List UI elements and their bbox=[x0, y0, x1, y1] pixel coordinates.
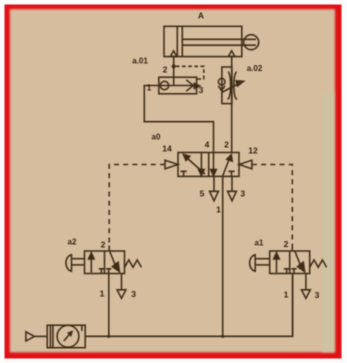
a0 left square down arrow bbox=[200, 153, 202, 171]
a2 middle line bbox=[104, 251, 106, 274]
a0 middle line bbox=[208, 153, 210, 177]
junction dot at a.01 port 2 bbox=[172, 64, 176, 68]
svg-text:A: A bbox=[198, 11, 204, 21]
svg-text:1: 1 bbox=[147, 83, 152, 93]
a1 spring bbox=[310, 260, 327, 267]
a1 left square up arrow bbox=[276, 258, 278, 273]
a0 right square down arrow bbox=[213, 153, 215, 171]
a1 T marks bbox=[284, 269, 289, 274]
a1 mushroom actuator bbox=[250, 255, 256, 271]
svg-text:3: 3 bbox=[199, 85, 204, 95]
valve a0 body bbox=[178, 153, 239, 177]
right side scan tint bbox=[322, 92, 335, 353]
wire cylinder right port through a.02 to a0 port 2 bbox=[231, 57, 233, 153]
a.01 middle line bbox=[159, 85, 197, 87]
junction dot a2 bbox=[107, 335, 110, 338]
svg-text:12: 12 bbox=[248, 146, 258, 156]
valve a2 body bbox=[85, 251, 125, 274]
svg-text:3: 3 bbox=[240, 189, 245, 199]
a2 port 3 stub bbox=[121, 274, 123, 290]
service unit body bbox=[47, 325, 85, 348]
a.02 check seat bbox=[218, 86, 225, 91]
a.01 pilot dashed line bbox=[176, 66, 204, 79]
svg-text:2: 2 bbox=[284, 239, 289, 249]
svg-text:1: 1 bbox=[100, 289, 105, 299]
svg-text:4: 4 bbox=[205, 140, 210, 150]
valve a.02 body bbox=[222, 67, 232, 104]
wire supply triangle to service unit bbox=[34, 335, 47, 337]
a0 right square T bbox=[228, 171, 234, 176]
a0 left square diagonal arrow bbox=[187, 158, 206, 175]
cylinder left port arrow bbox=[170, 51, 176, 57]
a2 port 1 wire bbox=[108, 274, 110, 337]
a.02 adjust arrow bbox=[222, 84, 240, 93]
a0 pilot 14 triangle bbox=[165, 160, 178, 169]
svg-text:a2: a2 bbox=[68, 238, 77, 247]
svg-text:2: 2 bbox=[101, 240, 106, 250]
wire a0 port 1 to supply line bbox=[222, 176, 224, 336]
a0 port 3 exhaust triangle bbox=[228, 191, 237, 201]
cylinder A piston bbox=[176, 26, 178, 56]
a2 spring bbox=[125, 260, 142, 267]
valve a1 body bbox=[270, 251, 310, 274]
valve a.01 body bbox=[159, 77, 197, 94]
service unit gauge needle bbox=[64, 334, 70, 341]
a2 port 3 exhaust triangle bbox=[117, 290, 126, 299]
a0 left square T bbox=[181, 171, 187, 176]
a2 T marks bbox=[99, 269, 104, 274]
a1 middle line bbox=[289, 251, 291, 274]
a.01 chevron bbox=[186, 80, 193, 91]
service unit inner double lines bbox=[49, 325, 51, 348]
supply line bbox=[85, 274, 292, 337]
a2 port 2 stub bbox=[108, 246, 110, 252]
service unit right tick bbox=[81, 325, 83, 331]
a2 left square up arrow bbox=[90, 258, 92, 273]
cylinder A body bbox=[164, 26, 242, 56]
a1 port 3 exhaust triangle bbox=[302, 290, 311, 299]
a0 pilot 14 dashed line bbox=[109, 165, 165, 246]
svg-text:1: 1 bbox=[284, 290, 289, 300]
a1 port 3 stub bbox=[305, 274, 307, 290]
service unit gauge circle bbox=[57, 325, 79, 347]
air supply triangle bbox=[26, 332, 35, 341]
junction dot a0 bbox=[221, 335, 224, 338]
svg-text:14: 14 bbox=[162, 144, 172, 154]
a0 right square diagonal arrow bbox=[223, 160, 229, 177]
a.02 throttle arcs bbox=[228, 72, 231, 100]
svg-text:2: 2 bbox=[224, 140, 229, 150]
svg-text:a.01: a.01 bbox=[132, 57, 148, 66]
svg-text:a1: a1 bbox=[255, 239, 264, 248]
a2 mushroom actuator bbox=[66, 255, 72, 271]
wire cylinder left port to a.01 port 2 bbox=[173, 57, 175, 86]
a0 port 5 stub bbox=[213, 176, 215, 191]
svg-text:3: 3 bbox=[315, 290, 320, 300]
a1 port 1 wire bbox=[292, 274, 294, 337]
svg-text:3: 3 bbox=[131, 289, 136, 299]
svg-text:2: 2 bbox=[163, 65, 168, 75]
a0 pilot 12 dashed line bbox=[252, 165, 292, 246]
a0 pilot 12 triangle bbox=[239, 160, 252, 169]
a.01 check ball bbox=[160, 81, 168, 89]
a0 port 3 stub bbox=[231, 176, 233, 191]
svg-text:1: 1 bbox=[216, 205, 221, 215]
a1 port 2 stub bbox=[291, 246, 293, 252]
svg-text:a0: a0 bbox=[152, 133, 161, 142]
wire a.01 port 1 to a0 port 4 bbox=[144, 86, 213, 153]
a0 port 5 exhaust triangle bbox=[210, 191, 219, 201]
cylinder right port arrow bbox=[228, 51, 234, 57]
cylinder A rod end circle bbox=[244, 35, 259, 50]
a.01 exhaust arrow bbox=[194, 84, 200, 89]
a2 right square diagonal arrow bbox=[110, 252, 115, 265]
svg-text:a.02: a.02 bbox=[247, 64, 263, 73]
svg-text:5: 5 bbox=[200, 189, 205, 199]
cylinder A rod bbox=[182, 38, 256, 40]
a.02 check ball bbox=[218, 78, 225, 85]
a1 right square diagonal arrow bbox=[295, 252, 300, 265]
